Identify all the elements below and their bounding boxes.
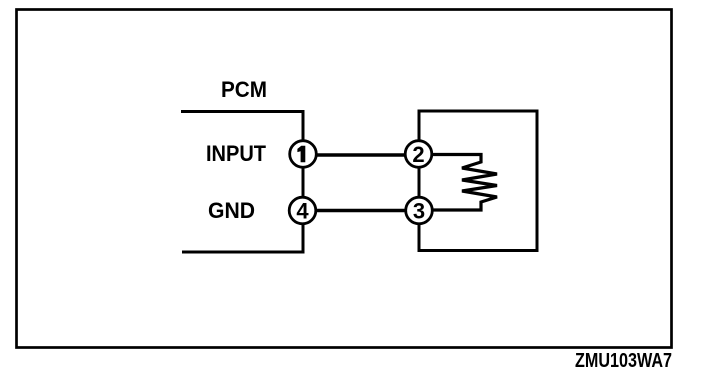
svg-text:INPUT: INPUT — [206, 141, 267, 166]
svg-text:PCM: PCM — [221, 77, 267, 102]
svg-text:GND: GND — [208, 198, 255, 223]
svg-text:4: 4 — [296, 199, 309, 224]
svg-text:ZMU103WA7: ZMU103WA7 — [575, 350, 672, 372]
svg-text:2: 2 — [412, 142, 424, 167]
svg-text:3: 3 — [413, 199, 425, 224]
